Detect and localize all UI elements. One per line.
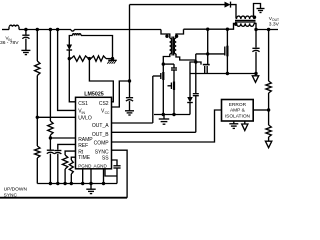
svg-text:OUT_B: OUT_B <box>92 132 109 138</box>
svg-text:AMP &: AMP & <box>230 108 246 114</box>
svg-text:SYNC: SYNC <box>4 192 18 198</box>
svg-text:36 - 78V: 36 - 78V <box>0 40 19 46</box>
svg-text:SS: SS <box>102 156 109 162</box>
svg-text:OUT: OUT <box>272 18 279 22</box>
svg-text:UP/DOWN: UP/DOWN <box>4 187 28 193</box>
svg-text:COMP: COMP <box>94 141 110 147</box>
svg-text:ERROR: ERROR <box>229 102 247 108</box>
svg-text:IN: IN <box>82 111 86 115</box>
svg-text:UVLO: UVLO <box>78 115 92 121</box>
svg-text:CS1: CS1 <box>78 101 88 107</box>
svg-text:CS2: CS2 <box>99 101 109 107</box>
svg-text:CC: CC <box>105 111 110 115</box>
svg-text:LM5025: LM5025 <box>84 91 103 97</box>
svg-text:ISOLATION: ISOLATION <box>225 113 251 119</box>
svg-text:PGND: PGND <box>78 163 92 168</box>
svg-text:AGND: AGND <box>94 163 108 168</box>
svg-text:REF: REF <box>78 143 88 149</box>
svg-text:OUT_A: OUT_A <box>92 123 109 129</box>
svg-text:3.3V: 3.3V <box>269 21 280 27</box>
svg-text:TIME: TIME <box>78 155 91 161</box>
